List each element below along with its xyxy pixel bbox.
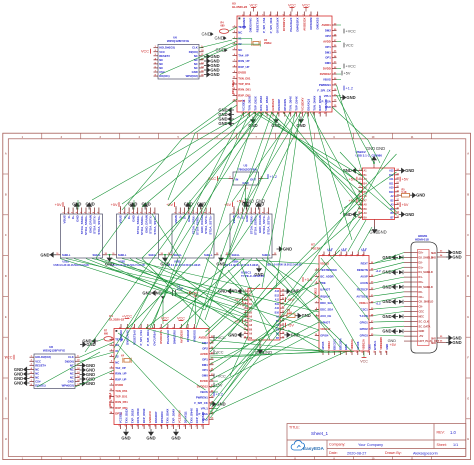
- svg-text:TXN_D54X: TXN_D54X: [166, 409, 170, 424]
- svg-text:D: D: [467, 275, 469, 278]
- svg-text:GND: GND: [171, 436, 180, 441]
- svg-text:HOT_PLUG_DET: HOT_PLUG_DET: [419, 339, 440, 343]
- svg-text:VCC: VCC: [161, 316, 169, 320]
- svg-text:TXN_D51: TXN_D51: [115, 389, 128, 393]
- wire crossing USBC2 f: [344, 172, 397, 208]
- net +5V at USB2: [111, 202, 119, 207]
- svg-text:AVDD: AVDD: [323, 39, 331, 43]
- ground right lower of USBC1: [284, 332, 300, 338]
- wire U7 to HDMI 1b: [373, 257, 404, 263]
- ESD diode at HDMI shield row 4: [399, 300, 403, 304]
- ESD diode at HDMI shield row 5: [399, 314, 403, 318]
- net VCC right of U4 #2: [214, 350, 224, 355]
- wire crossing USB3 box: [142, 214, 186, 258]
- ESD diode at HDMI shield row 6: [399, 329, 403, 333]
- wire USBC2 to U7 a: [336, 216, 362, 252]
- svg-text:16: 16: [334, 100, 337, 102]
- wire into USBC1 left low: [230, 336, 248, 376]
- wire crossing USBC2 e: [344, 170, 397, 215]
- svg-text:A9: A9: [249, 333, 253, 336]
- svg-text:NC: NC: [35, 375, 39, 379]
- svg-text:DSAXQ1: DSAXQ1: [306, 99, 310, 111]
- svg-text:RXN_D51: RXN_D51: [115, 400, 128, 404]
- svg-text:1: 1: [247, 188, 249, 190]
- svg-text:DM4SSRX: DM4SSRX: [296, 18, 300, 32]
- svg-text:+5V: +5V: [402, 203, 409, 207]
- wire U6 to U5 clk2: [199, 40, 232, 48]
- net +5V left of USBC1: [234, 297, 242, 302]
- ground below U5 #3: [296, 117, 305, 129]
- ground above USB4: [255, 201, 264, 209]
- wire USB1 to USBC1 b: [74, 259, 248, 312]
- wire U5 to USB2 b: [142, 112, 255, 207]
- svg-text:B11: B11: [389, 182, 394, 185]
- svg-text:VDDL1: VDDL1: [359, 301, 368, 305]
- svg-text:TXN_D52X: TXN_D52X: [124, 409, 128, 424]
- svg-text:CEC: CEC: [367, 344, 371, 350]
- svg-text:A2: A2: [390, 195, 394, 198]
- svg-text:36: 36: [371, 262, 374, 264]
- svg-text:VDDHDMI: VDDHDMI: [379, 337, 383, 350]
- ground above USB2: [141, 201, 150, 209]
- svg-text:DI(IO0): DI(IO0): [65, 359, 74, 363]
- svg-text:D0-: D0-: [419, 290, 423, 294]
- wire U5 left down to USB2: [122, 99, 237, 210]
- wire top to U4 a: [150, 112, 250, 328]
- svg-text:SHELL: SHELL: [262, 253, 271, 257]
- svg-text:STDA_SSTX+: STDA_SSTX+: [97, 215, 101, 235]
- svg-text:B1: B1: [364, 174, 368, 177]
- ground at C1: [142, 290, 158, 296]
- svg-text:GND: GND: [121, 436, 130, 441]
- svg-text:GND: GND: [283, 247, 292, 252]
- ground stack left of U5 #4: [218, 121, 234, 127]
- ground above USB1: [85, 201, 94, 209]
- svg-text:GND: GND: [382, 314, 391, 319]
- wire U5 to USBC2 3: [265, 112, 362, 193]
- svg-text:A8: A8: [364, 204, 368, 207]
- svg-text:A12: A12: [389, 170, 394, 173]
- net +5V left of USBC2: [349, 177, 357, 182]
- svg-text:A7: A7: [249, 320, 253, 323]
- wire USB4 to U7 top: [222, 259, 319, 265]
- wire from GND cluster to U4 top: [162, 303, 164, 324]
- svg-text:+1.2: +1.2: [376, 269, 382, 273]
- svg-text:GND: GND: [416, 193, 425, 198]
- wire crossing USBC1 b: [228, 272, 279, 336]
- wire U7 to HDMI 3b: [373, 282, 404, 290]
- wire U5 to USBC1 top: [262, 112, 295, 288]
- net VCC above U4 left: [122, 314, 132, 318]
- svg-text:SHD: SHD: [431, 252, 436, 255]
- net VCC above U5 right: [302, 3, 310, 7]
- svg-text:C: C: [5, 234, 7, 237]
- svg-text:15: 15: [211, 418, 214, 420]
- ground between USB2 USB3: [160, 255, 169, 267]
- ground top right of U8: [80, 342, 96, 348]
- resistor pulldown at USBC1: [287, 314, 295, 318]
- wire crossing USBC1 a: [228, 270, 279, 336]
- wire USB4 to U7 bottom: [256, 259, 352, 352]
- svg-text:F_SPI_CK: F_SPI_CK: [194, 401, 207, 405]
- svg-text:TA#_UP: TA#_UP: [238, 54, 249, 58]
- svg-text:CS#: CS#: [35, 380, 41, 384]
- svg-text:NC: NC: [194, 54, 198, 58]
- svg-text:GPIO1: GPIO1: [360, 320, 369, 324]
- net +5V right of USBC1: [286, 297, 295, 302]
- svg-text:GND: GND: [405, 212, 414, 217]
- wire USBC1 to U7 b: [288, 330, 324, 352]
- svg-text:B11: B11: [275, 303, 280, 306]
- svg-text:GND: GND: [82, 339, 91, 344]
- net +5V right of U4: [214, 383, 223, 388]
- net +1.2 right of U5: [344, 86, 353, 91]
- wire crossing USBC2 d: [348, 150, 390, 228]
- EasyEDA logo: [291, 441, 324, 451]
- svg-text:A11: A11: [389, 178, 394, 181]
- svg-text:DVDD: DVDD: [238, 71, 246, 75]
- svg-text:GND: GND: [202, 32, 211, 37]
- wire USB4 to U4 a: [146, 259, 236, 329]
- svg-text:12: 12: [216, 253, 219, 255]
- wire crossing U4 box b: [146, 329, 206, 345]
- svg-text:RXP_UP: RXP_UP: [115, 377, 126, 381]
- ground below U3: [243, 199, 249, 206]
- wire USBC2 to U7 b: [348, 220, 366, 252]
- svg-text:RXP_UP: RXP_UP: [238, 65, 249, 69]
- svg-text:+VCC: +VCC: [346, 64, 356, 68]
- wire USB1 to USBC1 a: [66, 259, 248, 302]
- ground stack left of U5 #2: [218, 112, 234, 118]
- svg-text:GND: GND: [215, 36, 224, 41]
- svg-text:5.1K: 5.1K: [402, 191, 407, 194]
- USB-A connector USB3: [168, 208, 220, 259]
- wire U5 to USBC2 5: [283, 112, 362, 210]
- wire top to U8 area: [85, 112, 260, 352]
- svg-text:OP2: OP2: [325, 34, 331, 38]
- wire long mid b: [100, 259, 319, 331]
- svg-text:USB1: USB1: [63, 260, 70, 263]
- ground below U4 #1: [121, 429, 130, 441]
- net +1.2 right of U4: [214, 392, 223, 397]
- svg-text:GND: GND: [346, 95, 355, 100]
- svg-text:NC: NC: [159, 58, 163, 62]
- svg-text:A7: A7: [364, 199, 368, 202]
- svg-text:19: 19: [397, 190, 400, 192]
- svg-text:RXP_D53X: RXP_D53X: [142, 408, 146, 423]
- svg-text:TERM: TERM: [238, 25, 247, 29]
- ground right of USB4: [277, 246, 293, 252]
- svg-text:22: 22: [397, 178, 400, 180]
- svg-text:CLK: CLK: [68, 355, 74, 359]
- svg-text:13: 13: [397, 216, 400, 218]
- svg-text:DM2: DM2: [202, 341, 208, 345]
- net VCC right of U5 #2: [344, 43, 354, 48]
- svg-text:B4: B4: [364, 182, 368, 185]
- ground above USB4: [242, 201, 251, 209]
- svg-text:TXP_D51: TXP_D51: [115, 395, 128, 399]
- svg-text:VBUS2X: VBUS2X: [324, 99, 328, 111]
- resistor R7 body: [104, 337, 113, 341]
- svg-text:21: 21: [397, 182, 400, 184]
- svg-text:OP1: OP1: [325, 56, 331, 60]
- svg-text:Company:: Company:: [329, 443, 345, 447]
- ground at resistor of USBC1: [295, 313, 311, 319]
- resistor pulldown at USBC2: [402, 193, 410, 197]
- svg-text:23: 23: [334, 62, 337, 64]
- svg-text:GND: GND: [256, 199, 265, 204]
- ground above USB2: [128, 201, 137, 209]
- wire U8 to U4 a: [80, 342, 115, 357]
- svg-text:CK+: CK+: [419, 295, 425, 299]
- svg-text:12: 12: [77, 368, 80, 370]
- svg-text:B: B: [5, 193, 7, 196]
- wire U5 to USBC2 2: [259, 112, 362, 185]
- svg-text:+1.2: +1.2: [346, 86, 354, 90]
- net +5V at USB1: [55, 202, 63, 207]
- wire mid short: [206, 259, 248, 297]
- svg-text:20: 20: [397, 186, 400, 188]
- svg-text:EasyEDA: EasyEDA: [303, 446, 324, 451]
- svg-text:GND: GND: [343, 168, 352, 173]
- net VCC above U5 mid: [288, 3, 296, 7]
- ground stack left of U8 #2: [14, 371, 30, 377]
- svg-text:OVCUR1#X: OVCUR1#X: [276, 18, 280, 34]
- HDMI connector HDMI1: [404, 234, 440, 353]
- svg-text:TXN_DN4X: TXN_DN4X: [312, 96, 316, 111]
- ground left lower of USBC1: [228, 332, 244, 338]
- svg-text:GND: GND: [146, 436, 155, 441]
- wire USBC1 to U7 a: [288, 283, 319, 296]
- svg-text:VC33DX: VC33DX: [242, 99, 246, 110]
- flash chip U8 W25Q128FVFIG: [30, 345, 81, 389]
- svg-text:I2C_ADDR: I2C_ADDR: [320, 275, 333, 279]
- svg-text:D2-: D2-: [419, 260, 423, 264]
- wire U7 to HDMI 7: [373, 335, 404, 336]
- net +5V right lower of USBC2: [400, 202, 409, 207]
- wire top right to USBC2: [310, 112, 362, 206]
- svg-text:17: 17: [397, 199, 400, 201]
- ground at HDMI diode 1: [382, 254, 398, 260]
- svg-text:DVDD12: DVDD12: [320, 72, 331, 76]
- svg-text:RXP_D53X: RXP_D53X: [265, 96, 269, 111]
- svg-text:VCC: VCC: [346, 43, 354, 47]
- wire U7 to HDMI 6: [373, 320, 404, 323]
- ground stack right of U8 #3: [80, 372, 96, 378]
- svg-text:TXN_D52X: TXN_D52X: [247, 96, 251, 111]
- svg-text:A8: A8: [249, 324, 253, 327]
- svg-text:D1+: D1+: [419, 265, 424, 269]
- svg-text:16: 16: [201, 74, 204, 76]
- svg-text:TXN_DN4X: TXN_DN4X: [189, 408, 193, 423]
- svg-text:+1.2: +1.2: [361, 247, 367, 251]
- svg-text:OUT: OUT: [250, 177, 256, 181]
- wire USB2 vcc stub: [133, 200, 135, 210]
- svg-text:A: A: [5, 153, 7, 156]
- svg-text:15: 15: [77, 380, 80, 382]
- wire U5 to USBC1 top b: [276, 112, 300, 288]
- svg-text:SHD: SHD: [431, 342, 436, 345]
- svg-text:NC: NC: [238, 31, 242, 35]
- ground between USB1 USB2: [105, 255, 114, 267]
- wire crossing U7 box c: [330, 256, 369, 301]
- svg-text:RXN_D53X: RXN_D53X: [136, 408, 140, 423]
- svg-text:VCC: VCC: [141, 50, 149, 54]
- svg-text:P_SPI_CS1: P_SPI_CS1: [139, 330, 143, 346]
- svg-text:14: 14: [282, 331, 285, 334]
- svg-text:13: 13: [201, 62, 204, 64]
- net VCC at U3 input: [208, 176, 218, 181]
- svg-text:+5V: +5V: [166, 203, 173, 207]
- svg-text:X4: X4: [121, 355, 125, 358]
- svg-text:+5V: +5V: [287, 324, 294, 328]
- wire U3 ground stem: [245, 190, 247, 200]
- svg-text:WP#(IO2): WP#(IO2): [62, 384, 74, 388]
- svg-text:H: H: [5, 438, 7, 441]
- ground left of USBC1 row: [218, 288, 234, 294]
- svg-text:VDD12A: VDD12A: [362, 339, 366, 350]
- svg-text:1.0: 1.0: [450, 430, 456, 435]
- svg-text:DP1: DP1: [325, 45, 331, 49]
- svg-text:D0+: D0+: [419, 280, 424, 284]
- svg-text:SHELL: SHELL: [232, 253, 241, 257]
- ground right of U4: [210, 401, 226, 407]
- svg-text:GND: GND: [152, 291, 161, 296]
- svg-text:SHELL: SHELL: [118, 253, 127, 257]
- ground below USBC2: [372, 227, 378, 234]
- svg-text:AVDD1: AVDD1: [199, 336, 209, 340]
- svg-text:GND: GND: [419, 329, 425, 333]
- ground stack left of U8 #3: [14, 376, 30, 382]
- svg-text:USB 3.0-AF-90-16.5X12.5-H6.95: USB 3.0-AF-90-16.5X12.5-H6.95: [54, 264, 90, 267]
- svg-text:RESET1#X: RESET1#X: [255, 18, 259, 33]
- svg-text:PWREN1: PWREN1: [196, 395, 208, 399]
- wire U7 to HDMI 2: [373, 262, 404, 270]
- wire crossing USBC2 a: [340, 152, 397, 212]
- ESD diode at HDMI shield row 3: [399, 285, 403, 289]
- svg-text:NC: NC: [35, 371, 39, 375]
- wire U5 right to USBC2 top: [337, 95, 375, 163]
- ground left of USB1: [40, 252, 56, 258]
- wire U7 to HDMI 5: [373, 307, 404, 309]
- svg-text:TA#_UP: TA#_UP: [115, 366, 126, 370]
- svg-text:DM1: DM1: [325, 50, 331, 54]
- net VCC below U7: [362, 357, 367, 359]
- ground at R7: [82, 338, 98, 344]
- svg-text:OVCUR1#X: OVCUR1#X: [153, 330, 157, 346]
- wire USB1 vcc stub: [77, 200, 79, 210]
- frame ruler ticks: [3, 133, 471, 460]
- svg-text:VPL1: VPL1: [324, 94, 331, 98]
- svg-text:GPIO4: GPIO4: [320, 334, 329, 338]
- svg-text:NEC: NEC: [419, 314, 425, 318]
- wire USB1 to USBC1 c: [86, 259, 248, 324]
- wire USB3 to U4 b: [138, 259, 186, 329]
- wire crossing USB3 box c: [152, 214, 180, 258]
- USB-C connector USBC2: [356, 150, 400, 227]
- wire U4 to U7 b: [210, 348, 342, 352]
- wire U5 to USBC2 4: [271, 112, 362, 202]
- ground at HDMI SHD 26: [446, 340, 462, 346]
- svg-text:REXT: REXT: [361, 262, 369, 266]
- ESD diode at HDMI shield row 2: [399, 270, 403, 274]
- svg-text:DM1: DM1: [202, 363, 208, 367]
- ground above USBC2: [371, 156, 377, 163]
- wire U7 bottom stem: [363, 351, 365, 358]
- svg-text:+VCC: +VCC: [346, 29, 356, 33]
- wire U5 to U4 top a: [196, 112, 272, 328]
- svg-text:DFU_SEL0: DFU_SEL0: [108, 392, 112, 406]
- svg-text:PWREN1: PWREN1: [319, 83, 331, 87]
- ground above USB1: [72, 201, 81, 209]
- ground below U5 #2: [271, 117, 280, 129]
- svg-text:VBUS: VBUS: [323, 78, 331, 82]
- ground stack right of U8 #2: [80, 367, 96, 373]
- wire U7 to HDMI 3: [373, 277, 404, 283]
- wire long mid a: [92, 259, 319, 313]
- ground stack right of U6 #1: [204, 54, 220, 60]
- svg-text:W25Q128FVFIG: W25Q128FVFIG: [167, 39, 190, 43]
- net VCC right of U4 #1: [214, 335, 226, 340]
- ground right of USBC1: [284, 288, 300, 294]
- svg-text:+5V: +5V: [55, 203, 62, 207]
- flash chip U6 W25Q128FVFIG: [154, 35, 205, 79]
- svg-text:D1-: D1-: [419, 275, 423, 279]
- svg-text:GND: GND: [14, 381, 23, 386]
- wire U5 to USB1: [92, 112, 247, 200]
- wire crossing USB2 box: [96, 214, 128, 258]
- svg-text:CK_SHIELD: CK_SHIELD: [419, 300, 434, 304]
- USB hub IC U5 GL3520-22: [231, 2, 341, 117]
- ground stack right of U6 #4: [204, 67, 220, 73]
- wire crossing U4 box c: [118, 345, 190, 424]
- svg-text:NC: NC: [115, 360, 119, 364]
- svg-text:VCC: VCC: [249, 3, 257, 7]
- svg-text:Sheet:: Sheet:: [437, 443, 447, 447]
- USB hub IC U4 GL3520-22: [108, 314, 218, 429]
- svg-text:F_SPI_CK: F_SPI_CK: [317, 88, 330, 92]
- svg-text:SHELL: SHELL: [148, 253, 157, 257]
- wire crossing USB4 box b: [228, 214, 258, 258]
- svg-text:TYPE-C-31-M-12: TYPE-C-31-M-12: [241, 274, 265, 278]
- wire USB2 to U4: [142, 259, 210, 329]
- wire USBC1 to USBC2: [284, 190, 362, 302]
- wire long mid f: [158, 259, 248, 328]
- net +3.3 above USBC1 right: [303, 277, 312, 282]
- svg-text:23: 23: [282, 294, 285, 296]
- svg-text:RXP_DN4X: RXP_DN4X: [195, 408, 199, 423]
- wire U5 to U4 top b: [205, 112, 278, 320]
- svg-text:G: G: [467, 397, 469, 400]
- wire U5 right down to USBC2 gnd: [332, 107, 380, 163]
- wire top to U4 b: [186, 112, 256, 328]
- wire U6 CLK to U5: [199, 45, 237, 61]
- net +5V at USB3: [166, 202, 174, 207]
- wire U8 to U4 b: [80, 352, 115, 362]
- svg-text:GNDAVX: GNDAVX: [148, 411, 152, 423]
- ground right of USBC2: [399, 168, 415, 174]
- svg-text:NC: NC: [238, 48, 242, 52]
- ground at HDMI SHD 25: [446, 335, 462, 341]
- svg-text:B2: B2: [390, 199, 394, 202]
- ground left of USBC1: [228, 288, 244, 294]
- wire USB4 to U7 a: [262, 259, 322, 301]
- svg-text:TXP_D54X: TXP_D54X: [172, 409, 176, 424]
- svg-text:TESTMODE8: TESTMODE8: [320, 268, 337, 272]
- svg-text:DP3XDM: DP3XDM: [309, 17, 313, 30]
- svg-text:GND: GND: [40, 252, 49, 257]
- ground below U4 #3: [171, 429, 180, 441]
